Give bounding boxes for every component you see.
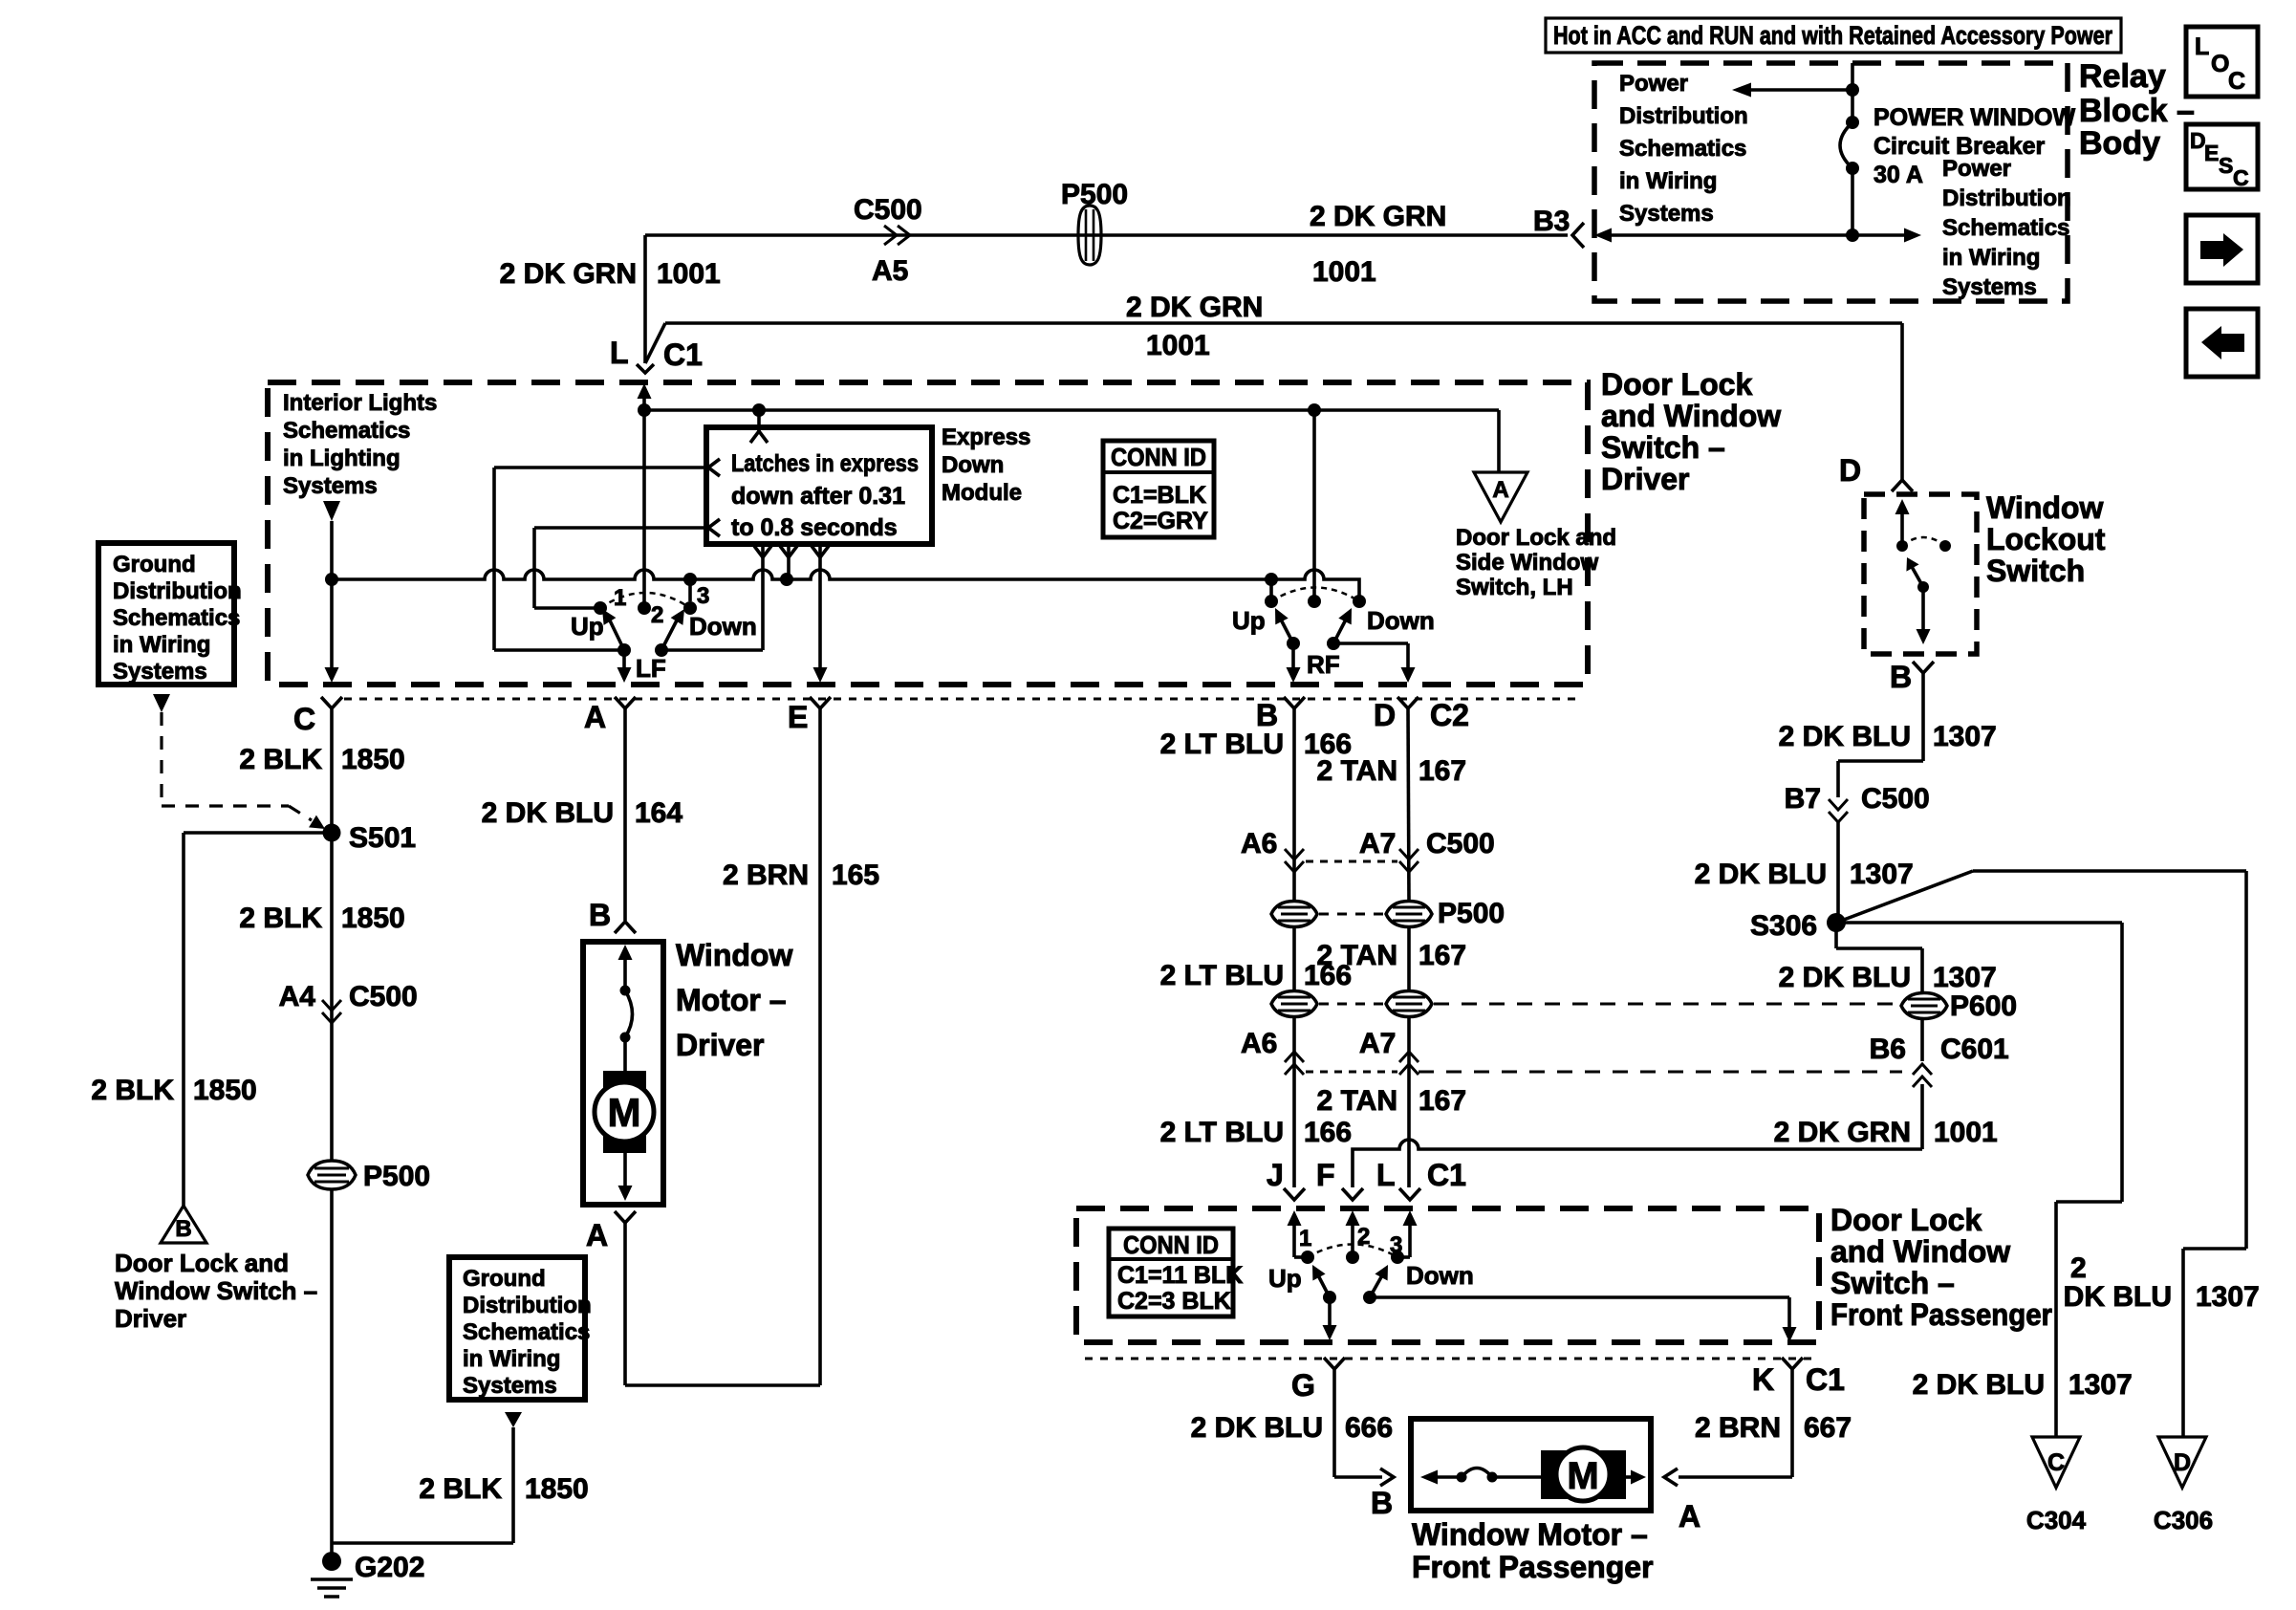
svg-text:Switch, LH: Switch, LH xyxy=(1456,575,1573,600)
icon box: arrow left xyxy=(2186,309,2258,377)
svg-text:C1: C1 xyxy=(663,337,703,372)
svg-text:C306: C306 xyxy=(2154,1506,2213,1534)
svg-text:2 DK BLU: 2 DK BLU xyxy=(1913,1369,2045,1401)
motor A chevron (passenger) xyxy=(1664,1469,1678,1486)
svg-text:Body: Body xyxy=(2079,125,2160,162)
ground box 2 triangle xyxy=(505,1412,522,1427)
splice S501 xyxy=(323,824,341,842)
pin G xyxy=(1324,1358,1345,1369)
icon box: DESC xyxy=(2186,124,2258,189)
svg-text:Switch –: Switch – xyxy=(1601,430,1725,465)
connector C601 crossing A6/A7 xyxy=(1285,1052,1304,1062)
svg-text:C: C xyxy=(2047,1449,2065,1476)
svg-text:C: C xyxy=(2228,68,2245,95)
svg-text:LF: LF xyxy=(636,654,666,683)
junction dot at module ground pin xyxy=(780,573,793,586)
svg-text:C500: C500 xyxy=(1426,828,1495,859)
passenger switch pin 2 from F xyxy=(1346,1210,1360,1226)
svg-text:2: 2 xyxy=(651,602,663,628)
svg-text:2 BRN: 2 BRN xyxy=(1695,1412,1781,1444)
motor B pin chevron xyxy=(615,922,636,933)
svg-text:M: M xyxy=(608,1090,641,1135)
svg-text:1: 1 xyxy=(1299,1226,1311,1251)
svg-text:2 TAN: 2 TAN xyxy=(1317,1085,1397,1117)
svg-text:2 LT BLU: 2 LT BLU xyxy=(1160,960,1284,991)
dashed reference wire to S501 xyxy=(160,712,162,806)
svg-text:Door Lock: Door Lock xyxy=(1830,1203,1982,1237)
wire: feed vertical in relay block xyxy=(1851,63,1854,122)
svg-text:Window: Window xyxy=(676,938,792,972)
wire: 2 DK BLU 1307 to S306 xyxy=(1836,822,1840,923)
svg-text:165: 165 xyxy=(832,859,879,891)
wire: main power vertical into driver switch xyxy=(638,383,652,399)
svg-text:Window Switch –: Window Switch – xyxy=(115,1276,317,1305)
motor internals (passenger): right arrow xyxy=(1626,1475,1636,1479)
svg-text:2: 2 xyxy=(1357,1224,1370,1250)
svg-text:E: E xyxy=(788,700,808,734)
wire: P600 to B6/C601 xyxy=(1920,1019,1924,1061)
svg-text:Ground: Ground xyxy=(113,552,196,577)
svg-text:D: D xyxy=(1839,453,1861,488)
svg-text:A7: A7 xyxy=(1359,828,1396,859)
pin K xyxy=(1782,1358,1803,1369)
wire: 2 BLK 1850 from C pin xyxy=(330,708,334,1161)
svg-text:1850: 1850 xyxy=(341,903,405,934)
svg-text:in Wiring: in Wiring xyxy=(1619,168,1717,194)
svg-text:B: B xyxy=(175,1216,191,1242)
svg-text:2 DK GRN: 2 DK GRN xyxy=(1310,201,1446,232)
svg-text:167: 167 xyxy=(1419,940,1466,971)
wire: 2 BRN 165 from E pin xyxy=(818,708,822,1385)
svg-text:2 DK GRN: 2 DK GRN xyxy=(1126,292,1263,323)
wire: arrow to power distribution (left) xyxy=(1749,88,1852,92)
svg-text:Distribution: Distribution xyxy=(1942,185,2071,211)
wire: RF down output to D pin xyxy=(1333,642,1408,645)
connector triangle B - Door Lock and Window Switch Driver xyxy=(161,1206,206,1243)
svg-text:in Wiring: in Wiring xyxy=(1942,245,2040,271)
svg-text:1850: 1850 xyxy=(525,1473,589,1505)
svg-text:2 BLK: 2 BLK xyxy=(419,1473,502,1505)
svg-text:Up: Up xyxy=(571,612,604,641)
svg-text:Schematics: Schematics xyxy=(283,418,410,444)
pin C xyxy=(321,697,342,708)
svg-text:Schematics: Schematics xyxy=(113,605,240,631)
svg-text:Switch –: Switch – xyxy=(1830,1266,1955,1300)
wire: S306 down to P600 xyxy=(1834,923,1838,948)
svg-text:Driver: Driver xyxy=(115,1304,186,1333)
svg-text:Systems: Systems xyxy=(1942,274,2037,300)
svg-text:1001: 1001 xyxy=(1146,330,1210,361)
svg-text:RF: RF xyxy=(1307,650,1340,679)
svg-text:Down: Down xyxy=(1367,606,1435,635)
svg-text:2 DK BLU: 2 DK BLU xyxy=(482,797,614,829)
svg-text:CONN ID: CONN ID xyxy=(1123,1230,1219,1259)
svg-text:Down: Down xyxy=(942,452,1004,478)
svg-text:C2=GRY: C2=GRY xyxy=(1113,508,1208,534)
svg-text:L: L xyxy=(610,336,629,370)
svg-text:L: L xyxy=(1376,1158,1396,1192)
motor brush contacts (passenger) xyxy=(1457,1472,1467,1483)
connector C500 crossing A6/A7 xyxy=(1285,849,1304,859)
connector P500 grommet pair xyxy=(1271,902,1317,927)
svg-text:Door Lock and: Door Lock and xyxy=(115,1249,289,1277)
wire: RF up output to B pin xyxy=(1291,643,1295,669)
svg-text:2 BLK: 2 BLK xyxy=(239,903,322,934)
interior lights feed triangle xyxy=(323,501,340,521)
relay block dashed box xyxy=(1594,63,2068,301)
svg-text:167: 167 xyxy=(1419,755,1466,787)
ground box triangle xyxy=(153,694,170,712)
svg-text:1001: 1001 xyxy=(1934,1117,1998,1148)
pin L xyxy=(1399,1188,1420,1200)
express down module box U1 xyxy=(706,427,932,544)
ground G202 xyxy=(322,1552,341,1571)
svg-text:166: 166 xyxy=(1304,1117,1352,1148)
module left pin 1 wire from LF up-common xyxy=(494,466,706,469)
pin A xyxy=(615,697,636,708)
svg-text:Lockout: Lockout xyxy=(1986,522,2106,556)
svg-text:M: M xyxy=(1567,1455,1598,1497)
module left pin 2 wire from LF contact 1 xyxy=(534,526,706,530)
svg-text:Express: Express xyxy=(942,424,1030,450)
wire: branch from S501 to driver switch ground B xyxy=(184,831,332,835)
switch RF contacts xyxy=(1265,595,1278,608)
svg-text:Systems: Systems xyxy=(283,473,378,499)
wire: LF output to A pin xyxy=(622,650,626,669)
svg-text:666: 666 xyxy=(1345,1412,1393,1444)
svg-text:2 BRN: 2 BRN xyxy=(723,859,809,891)
svg-text:1: 1 xyxy=(614,585,626,611)
svg-text:CONN ID: CONN ID xyxy=(1111,443,1206,471)
svg-text:A: A xyxy=(1492,477,1508,503)
svg-text:Up: Up xyxy=(1268,1264,1302,1293)
connector L / C1 at driver switch xyxy=(637,364,654,373)
svg-text:A6: A6 xyxy=(1241,828,1277,859)
conn id box (passenger): C1=11 BLK C2=3 BLK xyxy=(1109,1229,1233,1316)
connector B6 / C601 crossing xyxy=(1913,1064,1932,1075)
wire: 2 DK GRN 1001 branch to window lockout switch xyxy=(665,321,1902,325)
svg-text:C2=3 BLK: C2=3 BLK xyxy=(1117,1288,1231,1315)
note box: Ground Distribution Schematics in Wiring Systems (top) xyxy=(98,543,234,685)
wire: 2 LT BLU 166 from B pin xyxy=(1292,708,1296,902)
motor internals: top arrow xyxy=(618,945,633,960)
note box: Ground Distribution Schematics in Wiring Systems (bottom) xyxy=(449,1257,585,1400)
svg-text:Distribution: Distribution xyxy=(113,578,242,604)
connector row dotted line C2/C1 boundary (driver) xyxy=(344,698,1582,701)
circuit breaker CB (30 A) xyxy=(1846,116,1859,129)
label box: Hot in ACC and RUN and with Retained Accessory Power xyxy=(1546,18,2121,53)
wire: power bus to RF switch and LH triangle xyxy=(644,408,1499,412)
svg-text:C1: C1 xyxy=(1806,1362,1845,1397)
connector row dotted line (passenger) xyxy=(1085,1358,1811,1360)
svg-text:1307: 1307 xyxy=(2196,1281,2260,1313)
svg-text:C2: C2 xyxy=(1430,698,1469,732)
svg-text:C1=11 BLK: C1=11 BLK xyxy=(1117,1262,1243,1289)
svg-text:B: B xyxy=(1890,660,1912,694)
motor M armature xyxy=(603,1071,646,1153)
passenger switch pin 3 from L xyxy=(1403,1210,1418,1226)
svg-text:667: 667 xyxy=(1804,1412,1852,1444)
svg-text:C500: C500 xyxy=(349,981,418,1012)
wire: interior lights feed down to C pin xyxy=(330,521,334,669)
svg-text:D: D xyxy=(1374,698,1396,732)
svg-text:Power: Power xyxy=(1619,71,1688,97)
svg-text:S306: S306 xyxy=(1750,910,1817,942)
dashed box: Door Lock and Window Switch - Front Passenger xyxy=(1076,1208,1819,1342)
wire: RF center from power bus xyxy=(1312,410,1316,601)
connector B3 chevron at relay block edge xyxy=(1572,223,1584,248)
wire: 2 DK BLU 666 from G to motor B xyxy=(1332,1369,1336,1477)
pin B of lockout switch xyxy=(1913,662,1934,673)
svg-text:L: L xyxy=(2195,33,2209,60)
svg-text:1307: 1307 xyxy=(1933,962,1997,993)
svg-text:2 DK GRN: 2 DK GRN xyxy=(500,258,637,290)
svg-text:C500: C500 xyxy=(1861,783,1930,815)
svg-text:A: A xyxy=(586,1218,608,1252)
motor internals (passenger): left arrow xyxy=(1420,1470,1438,1485)
passenger switch pin 1 from J xyxy=(1288,1210,1302,1226)
module top pin wire xyxy=(757,410,761,432)
pin D of lockout switch xyxy=(1892,480,1913,491)
svg-text:Systems: Systems xyxy=(463,1373,557,1399)
svg-text:P500: P500 xyxy=(1061,179,1128,210)
module bottom pin to E output xyxy=(818,544,822,669)
junction dot at RF contact 1 stub xyxy=(1265,573,1278,586)
svg-text:C1=BLK: C1=BLK xyxy=(1113,482,1206,509)
pin E xyxy=(810,697,831,708)
switch RF down arm xyxy=(1327,637,1340,650)
svg-text:Switch: Switch xyxy=(1986,554,2085,588)
pin B xyxy=(1284,697,1305,708)
svg-text:P600: P600 xyxy=(1950,990,2017,1022)
svg-text:Schematics: Schematics xyxy=(463,1319,590,1345)
svg-text:C: C xyxy=(2233,165,2249,190)
svg-text:B: B xyxy=(589,898,611,932)
svg-text:and Window: and Window xyxy=(1830,1234,2010,1269)
splice S306 xyxy=(1827,913,1846,932)
pin D xyxy=(1397,697,1419,708)
pin F xyxy=(1342,1188,1363,1200)
svg-text:166: 166 xyxy=(1304,960,1352,991)
svg-text:Window: Window xyxy=(1986,490,2103,525)
window lockout switch dashed box S2 xyxy=(1864,494,1977,654)
svg-text:J: J xyxy=(1267,1158,1284,1192)
svg-text:P500: P500 xyxy=(1438,898,1505,929)
svg-text:down after 0.31: down after 0.31 xyxy=(731,483,905,510)
svg-text:Motor –: Motor – xyxy=(676,983,787,1017)
svg-text:POWER WINDOW: POWER WINDOW xyxy=(1874,104,2075,131)
svg-text:164: 164 xyxy=(635,797,682,829)
svg-text:3: 3 xyxy=(1390,1232,1402,1258)
svg-text:1307: 1307 xyxy=(1850,859,1914,890)
svg-text:O: O xyxy=(2211,51,2229,77)
svg-text:B7: B7 xyxy=(1785,783,1821,815)
motor A pin chevron xyxy=(615,1211,636,1223)
svg-text:S501: S501 xyxy=(349,822,416,854)
connector triangle A - Door Lock and Side Window Switch LH xyxy=(1474,472,1527,522)
module bottom pin to LF down-common xyxy=(761,544,765,650)
motor B chevron (passenger) xyxy=(1380,1469,1394,1486)
svg-text:1001: 1001 xyxy=(1312,256,1376,288)
connector P600 grommet xyxy=(1901,993,1947,1019)
wire: 2 BLK 1850 to G202 xyxy=(330,1189,334,1558)
svg-text:Interior Lights: Interior Lights xyxy=(283,390,437,416)
svg-text:30 A: 30 A xyxy=(1874,162,1923,188)
icon box: LOC xyxy=(2186,27,2258,97)
junction dot at LF contact 3 stub xyxy=(683,573,697,586)
svg-text:2 DK GRN: 2 DK GRN xyxy=(1774,1117,1911,1148)
wires down to C601 crossing xyxy=(1292,1017,1296,1187)
svg-text:K: K xyxy=(1752,1362,1774,1397)
svg-text:Schematics: Schematics xyxy=(1619,136,1746,162)
svg-text:in Wiring: in Wiring xyxy=(113,632,210,658)
svg-text:C304: C304 xyxy=(2026,1506,2087,1534)
svg-text:and Window: and Window xyxy=(1601,399,1781,433)
connector B7 / C500 crossing xyxy=(1829,799,1848,810)
svg-text:G: G xyxy=(1291,1368,1315,1403)
window motor front passenger M2 box xyxy=(1411,1419,1651,1511)
passenger switch down arm xyxy=(1363,1291,1376,1304)
motor internals: bottom arrow xyxy=(623,1153,627,1187)
wire: ground bus with hop-overs xyxy=(332,570,1359,601)
svg-text:Distribution: Distribution xyxy=(463,1293,592,1318)
svg-text:B6: B6 xyxy=(1870,1033,1906,1065)
motor brush contacts xyxy=(620,986,631,996)
connector A4 / C500 crossing xyxy=(322,1000,341,1011)
switch LF down arm xyxy=(655,643,668,657)
lockout switch contacts and arm xyxy=(1895,499,1910,514)
wire: 2 BRN 667 from K to motor A xyxy=(1790,1369,1794,1477)
svg-text:Ground: Ground xyxy=(463,1266,546,1292)
conn id box (driver): C1=BLK C2=GRY xyxy=(1103,441,1214,537)
wire: S306 to C304 triangle C xyxy=(1836,921,2122,925)
svg-text:to 0.8 seconds: to 0.8 seconds xyxy=(731,514,898,541)
wire: S306 to C306 triangle D xyxy=(1836,871,1973,923)
svg-text:2 BLK: 2 BLK xyxy=(91,1075,174,1106)
svg-text:Relay: Relay xyxy=(2079,58,2166,95)
connector P500 grommet (top) xyxy=(1078,206,1101,265)
wires between P500 and P600 rows xyxy=(1292,927,1296,991)
connector C500 pass-through (A5) xyxy=(884,226,897,245)
svg-text:167: 167 xyxy=(1419,1085,1466,1117)
pin J xyxy=(1284,1188,1305,1200)
svg-text:Front Passenger: Front Passenger xyxy=(1412,1550,1654,1584)
svg-text:1850: 1850 xyxy=(193,1075,257,1106)
svg-text:Side Window: Side Window xyxy=(1456,550,1598,576)
svg-text:Front Passenger: Front Passenger xyxy=(1830,1297,2052,1332)
svg-text:Latches in express: Latches in express xyxy=(731,450,919,477)
wire: 2 DK BLU 164 from A pin to motor xyxy=(623,708,627,921)
wire: passenger down output to K xyxy=(1370,1295,1789,1299)
svg-text:C500: C500 xyxy=(854,194,922,226)
connector triangle D - C306 xyxy=(2158,1437,2206,1488)
svg-text:in Lighting: in Lighting xyxy=(283,446,401,471)
svg-text:3: 3 xyxy=(697,583,709,609)
svg-text:Driver: Driver xyxy=(1601,462,1690,496)
switch LF contacts xyxy=(594,601,607,615)
svg-text:Systems: Systems xyxy=(1619,201,1714,227)
svg-text:1001: 1001 xyxy=(657,258,721,290)
svg-text:C1: C1 xyxy=(1427,1158,1466,1192)
svg-text:A4: A4 xyxy=(279,981,316,1012)
window motor driver M1 box xyxy=(583,942,663,1205)
svg-text:Door Lock: Door Lock xyxy=(1601,367,1752,402)
wire: ground box 2 to G202 xyxy=(332,1541,513,1545)
svg-text:P500: P500 xyxy=(363,1161,430,1192)
wire: 2 TAN 167 from D pin xyxy=(1408,708,1409,902)
svg-text:Distribution: Distribution xyxy=(1619,103,1748,129)
svg-text:Block –: Block – xyxy=(2079,93,2195,129)
svg-text:Systems: Systems xyxy=(113,659,207,685)
svg-text:1307: 1307 xyxy=(1933,721,1997,752)
switch LF up arm xyxy=(617,643,631,657)
connector P500 grommet (left) xyxy=(308,1161,356,1189)
icon box: arrow right xyxy=(2186,215,2258,283)
svg-text:Schematics: Schematics xyxy=(1942,215,2069,241)
passenger switch up arm xyxy=(1323,1291,1336,1304)
svg-text:Door Lock and: Door Lock and xyxy=(1456,525,1616,551)
svg-text:Window Motor –: Window Motor – xyxy=(1412,1517,1648,1552)
svg-text:2: 2 xyxy=(2070,1252,2087,1284)
svg-text:Down: Down xyxy=(1406,1261,1474,1290)
svg-text:S: S xyxy=(2219,153,2233,178)
svg-text:2 DK BLU: 2 DK BLU xyxy=(1191,1412,1323,1444)
svg-text:1307: 1307 xyxy=(2069,1369,2133,1401)
svg-text:A: A xyxy=(1679,1499,1700,1534)
svg-text:Down: Down xyxy=(689,612,757,641)
svg-text:Power: Power xyxy=(1942,156,2011,182)
svg-text:B: B xyxy=(1371,1486,1393,1520)
svg-text:Module: Module xyxy=(942,480,1022,506)
svg-text:F: F xyxy=(1316,1158,1335,1192)
wire: B3 feed horizontal + arrow right xyxy=(1846,228,1859,242)
svg-text:Driver: Driver xyxy=(676,1028,765,1062)
svg-text:Hot in ACC and RUN and with Re: Hot in ACC and RUN and with Retained Acc… xyxy=(1553,21,2112,50)
passenger switch contacts xyxy=(1301,1251,1314,1264)
wire: passenger up output to G xyxy=(1328,1297,1332,1327)
svg-text:G202: G202 xyxy=(355,1552,424,1583)
motor M armature (passenger) xyxy=(1541,1450,1626,1499)
connector triangle C - C304 xyxy=(2032,1437,2080,1488)
svg-text:A: A xyxy=(584,700,606,734)
switch RF up arm xyxy=(1287,637,1300,650)
svg-text:DK BLU: DK BLU xyxy=(2064,1281,2172,1313)
svg-text:2 BLK: 2 BLK xyxy=(239,744,322,775)
wire: motor A to 2 BRN 165 loop xyxy=(623,1223,627,1385)
svg-text:C: C xyxy=(293,702,315,736)
svg-text:in Wiring: in Wiring xyxy=(463,1346,560,1372)
dashed box: Door Lock and Window Switch - Driver xyxy=(268,382,1588,685)
svg-text:A5: A5 xyxy=(872,255,908,287)
svg-text:B: B xyxy=(1256,698,1278,732)
wire: 2 DK GRN 1001 to F pin xyxy=(1920,1084,1924,1149)
svg-text:D: D xyxy=(2174,1449,2191,1476)
svg-text:B3: B3 xyxy=(1533,206,1570,237)
wire: 2 DK GRN 1001 from B3 to driver switch L/C1 xyxy=(645,233,1568,237)
connector P600 grommet pair row xyxy=(1271,991,1317,1017)
svg-text:2 DK BLU: 2 DK BLU xyxy=(1695,859,1827,890)
svg-text:2 TAN: 2 TAN xyxy=(1317,755,1397,787)
svg-text:2 DK BLU: 2 DK BLU xyxy=(1779,962,1911,993)
svg-text:2 LT BLU: 2 LT BLU xyxy=(1160,729,1284,760)
svg-text:2 LT BLU: 2 LT BLU xyxy=(1160,1117,1284,1148)
svg-text:C601: C601 xyxy=(1940,1033,2009,1065)
svg-text:1850: 1850 xyxy=(341,744,405,775)
wire: 2 DK BLU 1307 lockout B to C500 xyxy=(1921,673,1925,761)
svg-text:A6: A6 xyxy=(1241,1028,1277,1059)
junction dot ground bus xyxy=(325,573,338,586)
svg-text:Up: Up xyxy=(1232,606,1266,635)
